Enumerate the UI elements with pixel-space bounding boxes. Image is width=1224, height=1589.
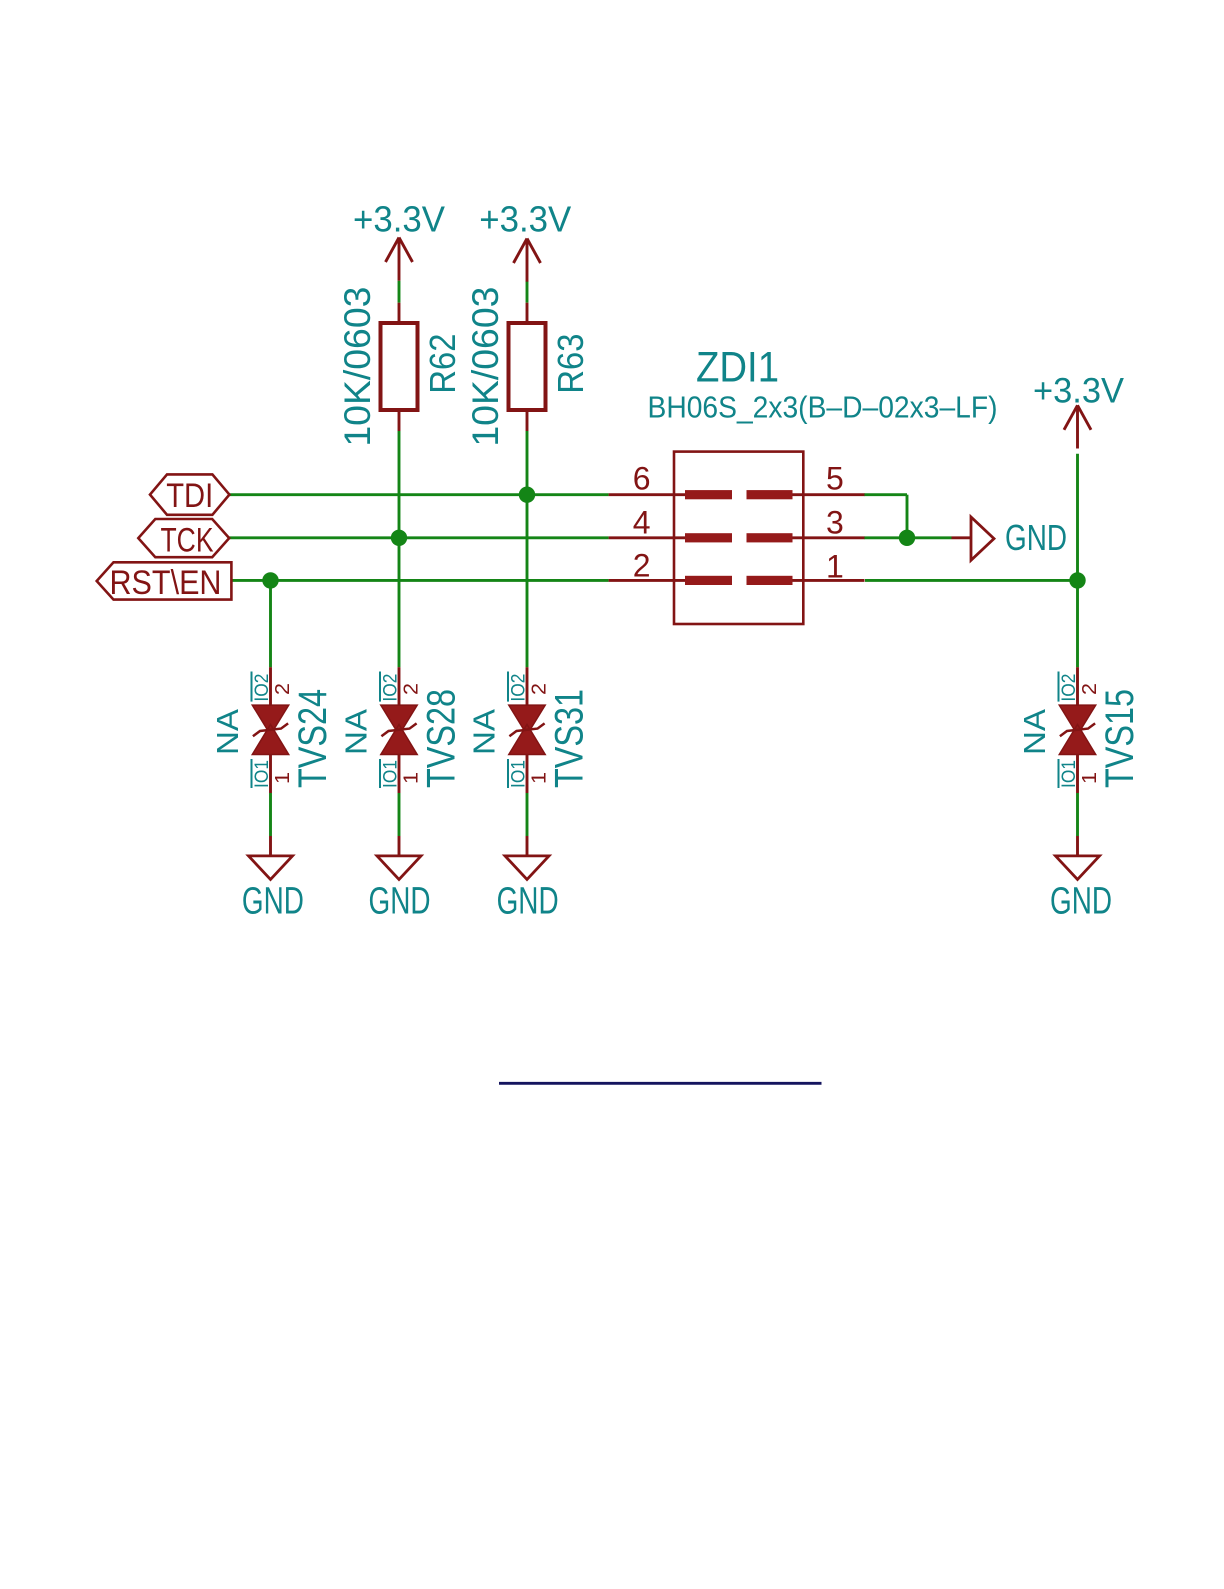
- svg-text:10K/0603: 10K/0603: [337, 287, 378, 447]
- svg-text:TVS24: TVS24: [291, 689, 335, 788]
- svg-text:IO1: IO1: [509, 760, 530, 788]
- svg-text:ZDI1: ZDI1: [696, 343, 779, 391]
- svg-text:GND: GND: [1005, 517, 1067, 558]
- svg-text:IO2: IO2: [509, 674, 530, 702]
- svg-text:IO1: IO1: [252, 760, 273, 788]
- svg-text:+3.3V: +3.3V: [1033, 371, 1125, 410]
- svg-text:6: 6: [633, 460, 651, 496]
- svg-text:NA: NA: [338, 709, 373, 755]
- svg-text:5: 5: [826, 460, 844, 496]
- svg-text:TVS15: TVS15: [1098, 689, 1142, 788]
- svg-text:TVS28: TVS28: [420, 689, 464, 788]
- svg-text:2: 2: [633, 548, 651, 584]
- svg-text:GND: GND: [497, 881, 559, 923]
- svg-text:GND: GND: [369, 881, 431, 923]
- svg-text:TCK: TCK: [161, 521, 214, 559]
- svg-text:NA: NA: [1017, 709, 1052, 755]
- svg-text:RST\EN: RST\EN: [110, 564, 222, 602]
- svg-text:R62: R62: [422, 334, 463, 394]
- svg-text:3: 3: [826, 504, 844, 540]
- svg-text:BH06S_2x3(B–D–02x3–LF): BH06S_2x3(B–D–02x3–LF): [648, 390, 998, 425]
- svg-text:IO2: IO2: [1059, 674, 1080, 702]
- svg-text:4: 4: [633, 504, 651, 540]
- svg-text:GND: GND: [242, 881, 304, 923]
- svg-text:IO1: IO1: [381, 760, 402, 788]
- svg-text:TVS31: TVS31: [548, 689, 592, 788]
- svg-text:IO2: IO2: [252, 674, 273, 702]
- svg-text:10K/0603: 10K/0603: [465, 287, 506, 447]
- svg-text:IO1: IO1: [1059, 760, 1080, 788]
- svg-text:IO2: IO2: [381, 674, 402, 702]
- svg-text:TDI: TDI: [166, 477, 213, 515]
- svg-text:1: 1: [826, 549, 844, 585]
- svg-text:R63: R63: [550, 334, 591, 394]
- svg-text:NA: NA: [210, 709, 245, 755]
- svg-text:GND: GND: [1050, 881, 1112, 923]
- svg-text:+3.3V: +3.3V: [353, 199, 445, 240]
- svg-text:+3.3V: +3.3V: [479, 199, 571, 240]
- svg-text:NA: NA: [466, 709, 501, 755]
